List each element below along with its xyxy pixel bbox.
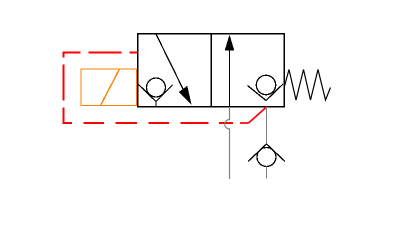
wire (drain line from right position) with crossover hop [225,107,230,179]
flow-path arrow (left position) [156,34,192,105]
check valve CV2 (right position, circle with seat) [248,75,284,100]
check valve CV1 (left position, circle with seat) [139,78,173,106]
check valve CV3 (inline, below valve) [248,144,285,167]
solenoid coil SOL1 [81,69,137,106]
pilot line (red dashed enclosure, top edge) [63,52,138,54]
flow-path arrow (right position, upward) [225,35,235,107]
valve body V1 (two-position envelope) [138,34,285,107]
return spring [284,70,331,101]
pilot line segment to check valve CV2 [240,107,267,124]
wire (below check valve CV3) [266,167,268,179]
wire (line from CV2 port down to check valve CV3) [266,107,268,144]
pilot line (red dashed enclosure, left edge) [63,52,65,123]
pilot line (red dashed enclosure, bottom edge) [63,122,233,124]
